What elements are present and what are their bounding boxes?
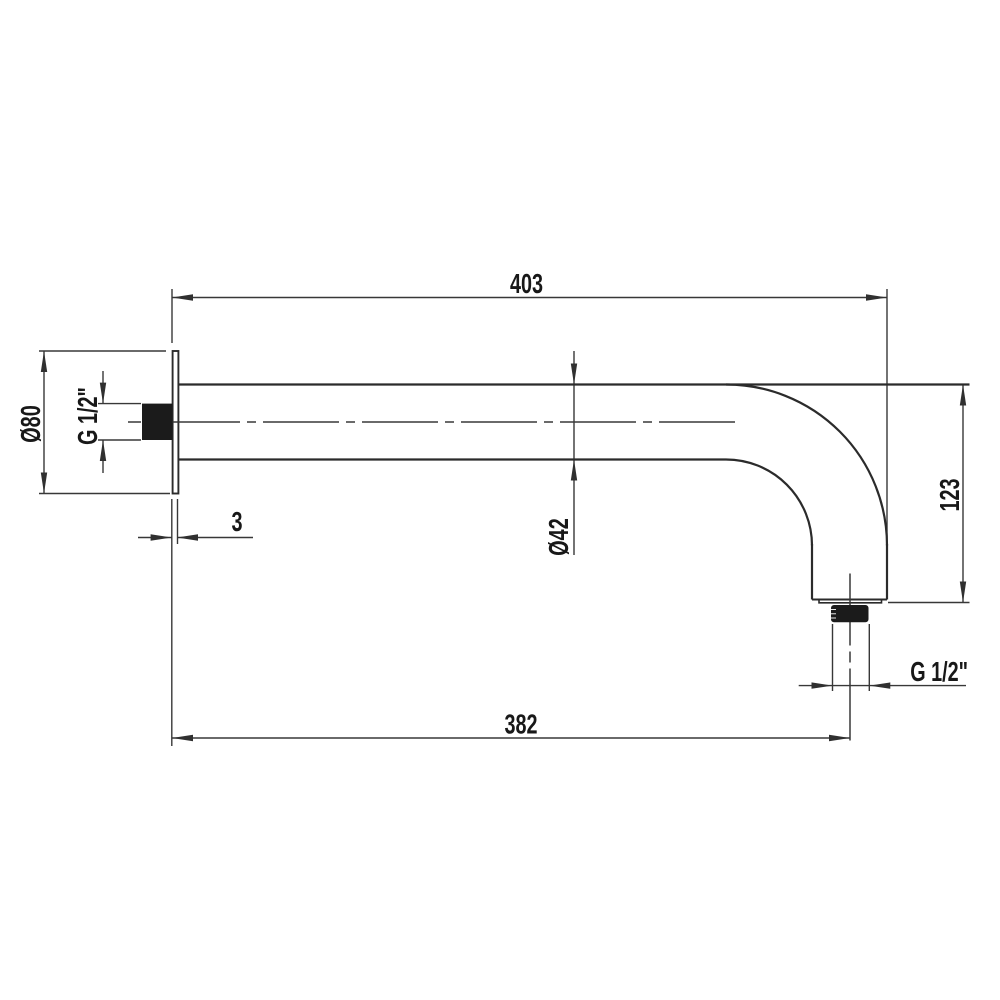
svg-text:G 1/2": G 1/2" [73,387,104,445]
svg-text:Ø80: Ø80 [16,405,47,442]
svg-text:G 1/2": G 1/2" [910,657,968,688]
svg-text:Ø42: Ø42 [544,518,575,555]
svg-text:123: 123 [935,478,966,511]
svg-text:382: 382 [504,709,537,740]
svg-text:3: 3 [231,507,242,538]
svg-text:403: 403 [510,269,543,300]
